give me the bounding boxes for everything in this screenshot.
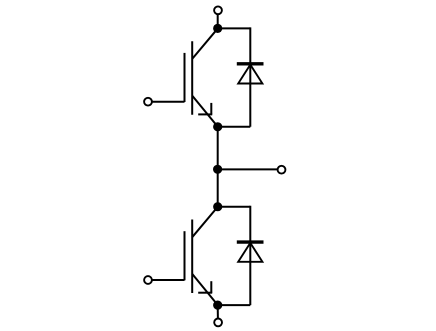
node J1 (upper IGBT collector junction): [213, 24, 222, 33]
wire J2 to midpoint node J3: [217, 127, 219, 170]
wire J5 to terminal T3: [217, 305, 219, 318]
wire J3 to output terminal: [218, 168, 278, 170]
transistor Q1 body bar: [191, 41, 193, 115]
node J4 (lower IGBT collector junction): [213, 202, 222, 211]
wire T1 to node J1: [217, 15, 219, 29]
transistor Q2 emitter lead (diagonal to J5): [192, 274, 218, 305]
node J3 (phase output midpoint): [213, 165, 222, 174]
transistor Q1 emitter arrow barb horizontal: [198, 113, 212, 115]
wire diode D1 anode to node J2: [218, 126, 251, 128]
wire J4 to diode D2 branch (horizontal): [218, 206, 251, 208]
transistor Q1 collector lead (diagonal to J1): [192, 28, 218, 59]
terminal T3 (bottom emitter terminal): [214, 319, 222, 327]
wire gate G2 lead: [152, 279, 184, 281]
wire J3 to node J4: [217, 169, 219, 206]
terminal T2 (phase output terminal): [278, 166, 286, 174]
node J5 (lower IGBT emitter junction): [213, 301, 222, 310]
terminal G1 (upper gate terminal): [144, 98, 152, 106]
diode D2 cathode bar: [237, 240, 264, 243]
wire diode D2 anode to node J5: [218, 304, 251, 306]
wire J1 to diode D1 branch (horizontal): [218, 27, 251, 29]
transistor Q1 emitter lead (diagonal to J2): [192, 96, 218, 127]
terminal G2 (lower gate terminal): [144, 276, 152, 284]
diode D2 triangle (anode, pointing up): [238, 243, 262, 262]
wire diode D1 branch vertical (through diode): [249, 27, 251, 126]
transistor Q2 collector lead (diagonal to J4): [192, 207, 218, 238]
transistor Q2 gate bar: [184, 231, 186, 280]
node J2 (upper IGBT emitter junction): [213, 122, 222, 131]
transistor Q2 body bar: [191, 220, 193, 294]
transistor Q1 emitter arrow barb vertical: [210, 103, 212, 115]
wire diode D2 branch vertical (through diode): [249, 206, 251, 305]
transistor Q2 emitter arrow barb horizontal: [198, 292, 212, 294]
diode D1 cathode bar: [237, 62, 264, 65]
diode D1 triangle (anode, pointing up): [238, 65, 262, 84]
transistor Q1 gate bar: [184, 53, 186, 102]
transistor Q2 emitter arrow barb vertical: [210, 281, 212, 293]
terminal T1 (top collector terminal): [214, 6, 222, 14]
wire gate G1 lead: [152, 101, 184, 103]
